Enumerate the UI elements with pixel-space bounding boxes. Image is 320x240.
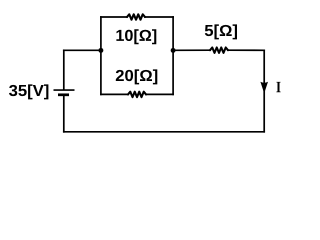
- current arrow head on right rail: [260, 82, 268, 94]
- node dot: right junction: [171, 48, 176, 53]
- label I: [276, 82, 280, 92]
- wire: left rail lower (battery - plate to bottom rail): [63, 96, 65, 132]
- wire: main rail battery to left junction: [64, 49, 101, 51]
- wire: box bottom branch left stub: [101, 93, 128, 95]
- wire: main rail right junction to 5-ohm resistor: [173, 49, 210, 51]
- battery 35[V] long plate: [54, 89, 75, 91]
- label 5[Ω]: [205, 24, 237, 39]
- label 35[V]: [9, 84, 48, 99]
- label 20[Ω]: [116, 69, 158, 84]
- node dot: left junction: [98, 48, 103, 53]
- wire: box top branch left stub: [101, 16, 127, 18]
- wire: left rail upper (corner down to battery + plate): [63, 50, 65, 89]
- battery 35[V] short thick plate: [58, 93, 69, 96]
- resistor 10[Ω] zigzag: [127, 14, 145, 19]
- wire: right rail: [263, 50, 265, 132]
- wire: 5-ohm resistor to top-right corner: [228, 49, 264, 51]
- wire: box bottom branch right stub: [146, 93, 173, 95]
- resistor 5[Ω] zigzag: [210, 48, 228, 53]
- wire: parallel box right vertical: [172, 17, 174, 94]
- wire: parallel box left vertical: [100, 17, 102, 94]
- label 10[Ω]: [116, 29, 156, 44]
- wire: box top branch right stub: [145, 16, 173, 18]
- wire: bottom rail: [64, 131, 264, 133]
- resistor 20[Ω] zigzag: [128, 92, 146, 97]
